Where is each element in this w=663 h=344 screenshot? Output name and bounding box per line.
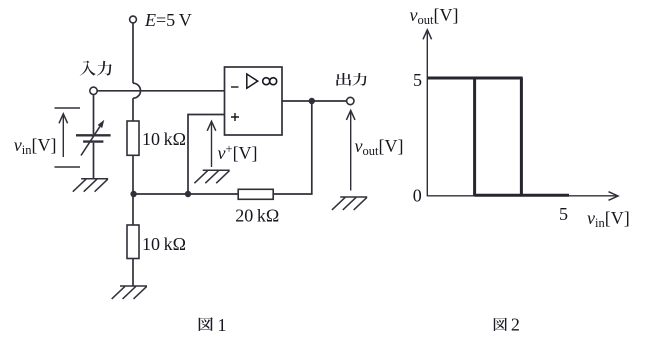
wire E supply vertical [132,23,134,83]
vin lower reference bar [55,166,81,168]
curve low level 0V [475,194,569,197]
op-amp infinity symbol [263,78,270,85]
graph x axis [427,195,617,197]
ground below vout arrow [332,197,367,210]
ground below source [73,179,108,192]
wire bottom rail left [133,193,238,195]
curve high level 5V [427,77,522,80]
variable arrow of source [81,127,100,156]
wire hop to R1 [132,98,134,121]
power terminal E [130,16,137,23]
wire R1 to node A [132,155,134,194]
svg-text:0: 0 [413,185,422,205]
caption zu 1 [199,317,213,331]
svg-text:10 kΩ: 10 kΩ [142,129,186,149]
wire input to op-amp minus [97,90,224,92]
wire op-amp output [282,100,347,102]
resistor R2 10k lower [127,225,139,259]
svg-text:2: 2 [511,315,520,335]
vin upper reference bar [55,107,81,109]
svg-text:vin[V]: vin[V] [14,135,57,157]
input terminal [90,87,97,94]
graph y axis [426,31,428,196]
op-amp U1 body [225,67,283,135]
svg-text:vout[V]: vout[V] [355,136,404,158]
svg-text:E=5 V: E=5 V [144,10,192,30]
caption zu 2 [494,318,507,331]
wire R2 to ground [132,259,134,287]
svg-text:1: 1 [218,315,227,335]
svg-text:vin[V]: vin[V] [587,208,630,230]
wire hop over input wire [133,83,141,98]
svg-text:20 kΩ: 20 kΩ [235,206,279,226]
resistor R1 10k [127,121,139,155]
vout measurement arrow [350,111,352,191]
op-amp triangle symbol [247,74,258,88]
wire node B to plus input [188,115,225,195]
node C output junction [309,98,315,104]
svg-text:vout[V]: vout[V] [410,5,459,27]
label shutsuryoku output [336,73,351,86]
curve falling edge at lower threshold [473,78,476,196]
vin measurement arrow [62,115,64,158]
ground below v plus arrow [194,170,229,183]
op-amp plus sign [231,113,239,121]
svg-text:5: 5 [559,204,568,224]
source V1 long plate [76,134,111,136]
svg-text:5: 5 [413,70,422,90]
curve falling edge at upper threshold [520,78,523,196]
wire node A to R2 [132,194,134,225]
svg-text:v+[V]: v+[V] [218,142,258,163]
wire source to ground [93,143,95,179]
node B junction [185,191,191,197]
source V1 short plate [83,140,103,142]
svg-text:10 kΩ: 10 kΩ [142,234,186,254]
wire R3 to output riser [273,101,312,194]
wire input terminal to source [93,95,95,135]
node A junction [130,191,136,197]
output terminal [347,97,354,104]
label nyuuryoku input [80,61,96,76]
v plus arrow [211,122,213,167]
resistor R3 20k feedback [238,189,273,199]
op-amp minus sign [231,86,239,88]
ground below R2 [112,286,147,299]
